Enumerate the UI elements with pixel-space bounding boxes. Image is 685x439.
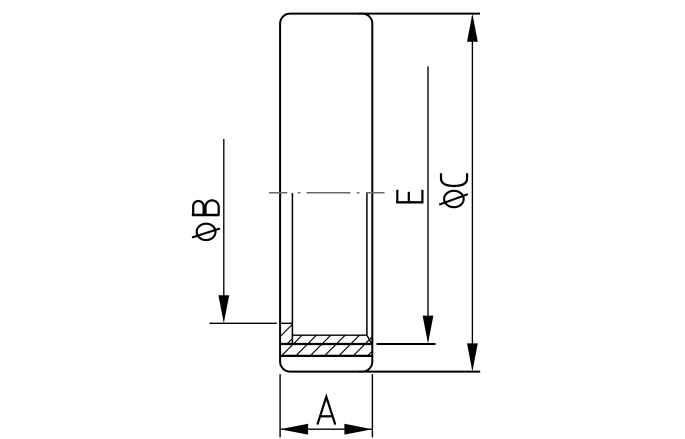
dimension phi-C: bottom arrowhead [467, 343, 478, 371]
dimension phi-B: line [223, 139, 225, 320]
dimension A: left arrowhead [280, 424, 308, 435]
chamfer line right [367, 335, 372, 344]
label A [317, 397, 335, 425]
E extension line [377, 343, 436, 345]
dimension A: right arrowhead [344, 424, 372, 435]
bore bottom line [292, 334, 367, 336]
dimension A: right extension line [371, 374, 373, 437]
centerline (dash-dot) [269, 192, 385, 194]
label phi-B: letter B (rotated) [192, 200, 220, 215]
body outer rounded rectangle [280, 14, 372, 372]
hatch lines left wall [280, 324, 292, 344]
top edge extension line [358, 13, 480, 15]
dimension E: line [427, 66, 429, 340]
dimension E: arrowhead [423, 316, 434, 344]
inner bore wall right [366, 193, 368, 335]
hatch lines [280, 322, 401, 357]
label phi-C: diameter symbol [439, 191, 468, 207]
dimension phi-B: extension line [210, 322, 277, 324]
label phi-B: diameter symbol [192, 224, 220, 240]
inner bore wall left [291, 193, 293, 344]
bottom edge extension line [358, 371, 480, 373]
dimension phi-C: line [471, 16, 473, 369]
dimension A: line [280, 428, 372, 430]
dimension phi-C: top arrowhead [467, 14, 478, 42]
label E (rotated) [396, 190, 423, 203]
hatch bottom edge line (thick) [280, 355, 372, 357]
thread root line (thick, across body) [280, 343, 372, 345]
dimension phi-B: arrowhead [218, 295, 229, 323]
label phi-C: letter C (rotated) [441, 173, 467, 186]
dimension A: left extension line [279, 374, 281, 437]
section top edge left wall [280, 322, 292, 324]
